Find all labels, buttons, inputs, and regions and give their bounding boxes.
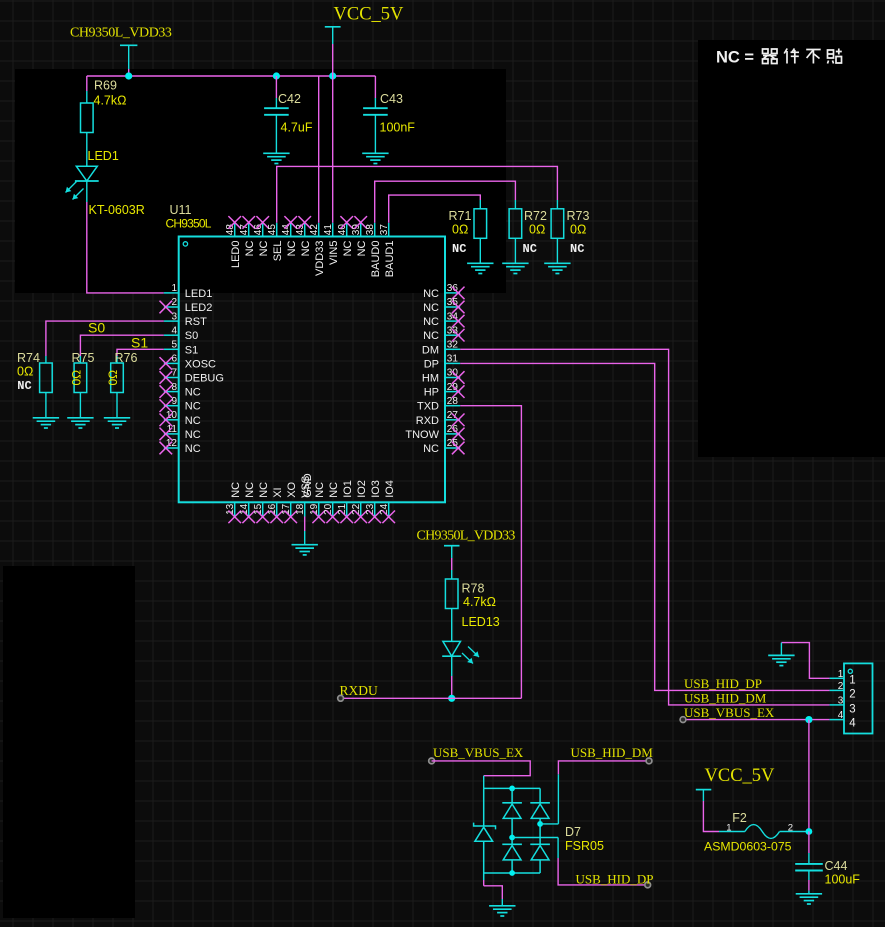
svg-text:NC: NC (523, 242, 537, 256)
resistor R78 (445, 579, 458, 609)
svg-text:NC: NC (185, 429, 201, 441)
wire C44 to ground (808, 871, 810, 881)
D7 junction column C mid (537, 821, 543, 827)
wire C43 to ground (374, 115, 376, 154)
svg-text:4.7uF: 4.7uF (281, 120, 313, 134)
wire S1 to R76 (117, 349, 164, 356)
pin 14 NC (bottom) (248, 502, 250, 516)
svg-text:1: 1 (849, 674, 855, 686)
pin 1 LED1 (left) (164, 292, 179, 294)
svg-text:43: 43 (295, 224, 306, 236)
wire SEL net (277, 166, 558, 222)
svg-text:6: 6 (171, 354, 177, 365)
ground below C44 (796, 894, 822, 904)
svg-text:R74: R74 (17, 351, 40, 365)
svg-text:NC: NC (356, 240, 368, 256)
svg-text:0Ω: 0Ω (570, 222, 586, 236)
svg-text:2: 2 (838, 681, 844, 692)
svg-text:39: 39 (351, 224, 362, 236)
svg-text:HM: HM (422, 373, 439, 385)
svg-text:41: 41 (323, 224, 334, 236)
capacitor C43 (374, 76, 376, 98)
svg-text:R73: R73 (567, 209, 590, 223)
svg-text:LED1: LED1 (185, 288, 213, 300)
svg-text:18: 18 (295, 503, 306, 515)
junction VBUS / C44 branch (805, 716, 812, 723)
svg-text:IO4: IO4 (384, 480, 396, 498)
svg-text:48: 48 (225, 224, 236, 236)
ground below R72 (502, 263, 528, 273)
svg-text:4.7kΩ: 4.7kΩ (94, 94, 127, 108)
svg-text:35: 35 (447, 297, 459, 308)
capacitor C44 (808, 832, 810, 854)
svg-text:33: 33 (447, 325, 459, 336)
wire D7 to USB_HID_DP (512, 837, 558, 839)
wire R76 to ground (116, 393, 118, 418)
svg-text:USB_HID_DP: USB_HID_DP (576, 872, 654, 887)
svg-text:3: 3 (171, 311, 177, 322)
svg-text:CH9350L_VDD33: CH9350L_VDD33 (70, 26, 172, 41)
pin 30 HM (right) (445, 377, 460, 379)
svg-text:LED13: LED13 (462, 615, 500, 629)
ground below C43 (362, 153, 388, 163)
svg-text:XO: XO (286, 481, 298, 497)
svg-text:USB_HID_DP: USB_HID_DP (684, 676, 762, 691)
svg-text:34: 34 (447, 311, 459, 322)
pin 39 NC (top) (360, 223, 362, 237)
pin 4 S0 (left) (164, 334, 179, 336)
op-amp U11 CH9350L body (179, 237, 445, 503)
pin 3 RST (left) (164, 320, 179, 322)
svg-text:32: 32 (447, 340, 459, 351)
svg-text:VIN5: VIN5 (328, 241, 340, 265)
svg-text:R78: R78 (462, 581, 485, 595)
pin 15 NC (bottom) (262, 502, 264, 516)
wire DM to connector pin 3 (460, 349, 829, 705)
pin 33 NC (right) (445, 334, 460, 336)
wire VCC_5V down to rail (332, 44, 334, 76)
svg-text:XI: XI (272, 487, 284, 497)
svg-text:2: 2 (171, 297, 177, 308)
pin 22 IO2 (bottom) (360, 502, 362, 516)
svg-text:1: 1 (838, 669, 844, 680)
ground below R73 (544, 263, 570, 273)
svg-text:DM: DM (422, 344, 439, 356)
svg-text:R76: R76 (115, 351, 138, 365)
pin 1 marker circle (183, 242, 187, 246)
svg-text:NC: NC (286, 240, 298, 256)
wire USB_VBUS_EX to D7 (432, 761, 531, 776)
svg-text:NC: NC (423, 288, 439, 300)
dark redraw patches (15, 69, 506, 293)
pin 8 NC (left) (164, 391, 179, 393)
wire R69 to LED1 (86, 133, 88, 167)
svg-text:F2: F2 (732, 811, 747, 825)
wire TXD down (460, 406, 521, 699)
no-ERC marker USB_VBUS_EX (D7) (429, 758, 435, 764)
D7 junction top (509, 786, 515, 792)
pin 10 NC (left) (164, 419, 179, 421)
svg-text:GND: GND (302, 473, 314, 498)
junction LED13 / RXDU wire (448, 695, 455, 702)
svg-text:25: 25 (447, 438, 459, 449)
svg-text:VDD33: VDD33 (314, 241, 326, 276)
svg-text:3: 3 (838, 695, 844, 706)
junction at rail / VCC_5V (329, 72, 336, 79)
svg-text:DP: DP (424, 358, 439, 370)
svg-text:DEBUG: DEBUG (185, 373, 224, 385)
junction F2 / C44 (806, 828, 813, 835)
svg-text:47: 47 (239, 224, 250, 236)
svg-text:NC: NC (342, 240, 354, 256)
svg-text:TNOW: TNOW (405, 429, 439, 441)
wire USB_VBUS_EX to connector pin 4 (683, 719, 830, 721)
wire D7 to USB_HID_DM (540, 823, 558, 825)
svg-text:NC: NC (185, 387, 201, 399)
wire VDD33 pin to rail (318, 76, 320, 223)
svg-text:NC: NC (230, 482, 242, 498)
svg-text:37: 37 (379, 224, 390, 236)
svg-text:NC: NC (423, 330, 439, 342)
svg-text:USB_VBUS_EX: USB_VBUS_EX (684, 705, 775, 720)
svg-text:27: 27 (447, 410, 459, 421)
no-ERC marker USB_HID_DP (D7) (645, 882, 651, 888)
ground at connector pin 1 (768, 655, 794, 665)
svg-text:1: 1 (171, 283, 177, 294)
hanzi qi (763, 49, 778, 64)
pin 5 S1 (left) (164, 348, 179, 350)
wire LED1 to pin 1 (87, 202, 164, 293)
pin 25 NC (right) (445, 447, 460, 449)
D7 top rail (484, 787, 540, 789)
svg-text:NC: NC (244, 482, 256, 498)
D7 column C diode pair (539, 788, 541, 802)
svg-text:28: 28 (447, 396, 459, 407)
pin 2 LED2 (left) (164, 306, 179, 308)
pin 43 NC (top) (304, 223, 306, 237)
svg-text:100uF: 100uF (825, 873, 861, 887)
pin 41 VIN5 (top) (332, 223, 334, 237)
svg-text:NC: NC (185, 415, 201, 427)
no-ERC marker RXDU (338, 695, 344, 701)
svg-text:LED2: LED2 (185, 302, 213, 314)
pin 18 VSS (bottom) (304, 502, 306, 516)
svg-text:U11: U11 (170, 203, 192, 217)
wire VIN5 pin to rail (332, 76, 334, 223)
svg-text:42: 42 (309, 224, 320, 236)
hanzi bu (806, 50, 821, 64)
svg-text:IO3: IO3 (370, 480, 382, 498)
svg-text:0Ω: 0Ω (452, 222, 468, 236)
pin 46 NC (top) (262, 223, 264, 237)
pin 37 BAUD1 (top) (388, 223, 390, 237)
pin 16 XI (bottom) (276, 502, 278, 516)
svg-text:5: 5 (171, 340, 177, 351)
svg-text:XOSC: XOSC (185, 358, 216, 370)
svg-text:D7: D7 (565, 825, 581, 839)
pin 7 DEBUG (left) (164, 377, 179, 379)
svg-text:VCC_5V: VCC_5V (705, 766, 776, 786)
wire BAUD0 to R72 (375, 181, 516, 223)
svg-text:44: 44 (281, 224, 292, 236)
svg-text:R69: R69 (94, 79, 117, 93)
svg-text:KT-0603R: KT-0603R (89, 203, 145, 217)
pin 29 HP (right) (445, 391, 460, 393)
svg-text:FSR05: FSR05 (565, 839, 604, 853)
wire R78 to LED13 (451, 609, 453, 642)
svg-text:NC: NC (423, 443, 439, 455)
svg-text:30: 30 (447, 368, 459, 379)
wire R71 to ground (479, 238, 481, 263)
svg-text:BAUD0: BAUD0 (370, 241, 382, 278)
pin 42 VDD33 (top) (318, 223, 320, 237)
svg-text:ASMD0603-075: ASMD0603-075 (704, 840, 792, 854)
pin 32 DM (right) (445, 348, 460, 350)
pin 24 IO4 (bottom) (388, 502, 390, 516)
svg-text:12: 12 (166, 438, 178, 449)
pin 44 NC (top) (290, 223, 292, 237)
svg-text:S1: S1 (131, 335, 148, 351)
ground below D7 (489, 906, 515, 916)
svg-text:R75: R75 (72, 351, 95, 365)
svg-text:0Ω: 0Ω (17, 365, 33, 379)
wire VDD33 rail (87, 75, 376, 77)
resistor R76 (111, 363, 124, 393)
svg-text:S0: S0 (185, 330, 198, 342)
wire rail corner down to R69 (86, 76, 88, 91)
resistor R69 (81, 103, 94, 133)
ground below R71 (467, 263, 493, 273)
resistor R72 (509, 209, 522, 239)
svg-text:NC: NC (570, 242, 584, 256)
svg-text:IO2: IO2 (356, 480, 368, 498)
connector pin 4 (830, 719, 844, 721)
pin 6 XOSC (left) (164, 362, 179, 364)
resistor R74 (40, 363, 53, 393)
capacitor C42 (275, 76, 277, 98)
svg-text:7: 7 (171, 368, 177, 379)
svg-text:1: 1 (726, 823, 731, 834)
svg-text:45: 45 (267, 224, 278, 236)
wire S0 to R75 (80, 335, 163, 356)
svg-text:NC: NC (423, 302, 439, 314)
connector J? 4-pin (844, 663, 873, 733)
hanzi jian (784, 49, 799, 64)
svg-text:BAUD1: BAUD1 (384, 241, 396, 278)
pin 48 LED0 (top) (234, 223, 236, 237)
svg-text:10: 10 (166, 410, 178, 421)
svg-text:100nF: 100nF (380, 120, 416, 134)
svg-text:0Ω: 0Ω (529, 222, 545, 236)
svg-text:0Ω: 0Ω (69, 370, 83, 386)
wire R73 to ground (556, 238, 558, 263)
svg-text:NC: NC (328, 482, 340, 498)
svg-text:S1: S1 (185, 344, 198, 356)
wire from CH9350L_VDD33 to rail (128, 69, 130, 76)
ground below R76 (104, 418, 130, 428)
wire VBUS down to fuse junction (808, 720, 810, 832)
wire RST to R74 (46, 321, 164, 356)
wire R75 to ground (79, 393, 81, 418)
wire C42 to ground (275, 115, 277, 154)
svg-text:26: 26 (447, 424, 459, 435)
pin 20 NC (bottom) (332, 502, 334, 516)
svg-text:USB_HID_DM: USB_HID_DM (684, 690, 767, 705)
svg-text:S0: S0 (88, 319, 105, 335)
pin 45 SEL (top) (276, 223, 278, 237)
svg-text:R71: R71 (449, 209, 472, 223)
D7 bottom rail (484, 872, 540, 874)
resistor R71 (474, 209, 487, 239)
svg-text:RXDU: RXDU (340, 683, 379, 698)
pin 31 DP (right) (445, 362, 460, 364)
svg-text:NC: NC (314, 482, 326, 498)
svg-text:2: 2 (849, 689, 855, 701)
svg-text:USB_HID_DM: USB_HID_DM (571, 745, 654, 760)
pin 34 NC (right) (445, 320, 460, 322)
svg-text:NC: NC (452, 242, 466, 256)
connector pin 3 (830, 704, 844, 706)
svg-text:NC: NC (185, 443, 201, 455)
wire VSS pin to ground (304, 517, 306, 532)
wire LED1 cathode down (86, 181, 88, 202)
pin 26 TNOW (right) (445, 433, 460, 435)
svg-text:CH9350L: CH9350L (166, 217, 212, 231)
pin 47 NC (top) (248, 223, 250, 237)
svg-text:11: 11 (167, 424, 178, 435)
svg-text:40: 40 (337, 224, 348, 236)
pin 23 IO3 (bottom) (374, 502, 376, 516)
svg-text:LED0: LED0 (230, 241, 242, 269)
ground below C42 (263, 153, 289, 163)
svg-text:4.7kΩ: 4.7kΩ (463, 595, 496, 609)
wire R72 to ground (514, 238, 516, 263)
svg-text:0Ω: 0Ω (106, 370, 120, 386)
svg-text:4: 4 (838, 710, 844, 721)
pin 12 NC (left) (164, 447, 179, 449)
svg-text:IO1: IO1 (342, 480, 354, 498)
pin 9 NC (left) (164, 405, 179, 407)
D7 column B diode pair (511, 788, 513, 802)
no-ERC marker USB_VBUS_EX (680, 717, 686, 723)
svg-text:R72: R72 (524, 209, 547, 223)
ground below R75 (67, 418, 93, 428)
pin 21 IO1 (bottom) (346, 502, 348, 516)
no-ERC marker USB_HID_DM (D7) (646, 758, 652, 764)
pin 17 XO (bottom) (290, 502, 292, 516)
svg-text:USB_VBUS_EX: USB_VBUS_EX (433, 745, 524, 760)
svg-text:TXD: TXD (417, 401, 439, 413)
svg-text:NC: NC (300, 240, 312, 256)
svg-text:C42: C42 (278, 92, 301, 106)
svg-text:46: 46 (253, 224, 264, 236)
D7 junction bottom (509, 870, 515, 876)
svg-text:VCC_5V: VCC_5V (334, 5, 405, 25)
junction at rail / CH9350L_VDD33 (125, 72, 132, 79)
svg-text:CH9350L_VDD33: CH9350L_VDD33 (417, 529, 516, 544)
svg-text:C44: C44 (825, 859, 848, 873)
hanzi tie (828, 49, 842, 64)
svg-text:36: 36 (447, 283, 459, 294)
wire D7 to ground (483, 873, 485, 880)
svg-text:HP: HP (424, 387, 439, 399)
svg-text:SEL: SEL (272, 241, 284, 262)
svg-text:4: 4 (171, 325, 177, 336)
svg-text:NC: NC (244, 240, 256, 256)
svg-text:31: 31 (447, 354, 459, 365)
D7 left branch zener (483, 788, 485, 826)
wire LED13 to RXDU node (451, 656, 453, 676)
pin 19 NC (bottom) (318, 502, 320, 516)
svg-text:8: 8 (171, 382, 177, 393)
wire VCC_5V to fuse F2 (703, 801, 719, 832)
pin 35 NC (right) (445, 306, 460, 308)
wire RXDU net (341, 697, 522, 699)
pin 38 BAUD0 (top) (374, 223, 376, 237)
svg-text:4: 4 (849, 717, 856, 729)
svg-text:2: 2 (788, 823, 793, 834)
pin 27 RXD (right) (445, 419, 460, 421)
fuse F2 ASMD0603-075 (719, 831, 745, 833)
connector pin 1 (830, 677, 844, 679)
svg-text:C43: C43 (380, 92, 403, 106)
svg-text:NC: NC (423, 316, 439, 328)
svg-text:RXD: RXD (416, 415, 439, 427)
wire VDD33 to R78 (451, 558, 453, 570)
svg-text:38: 38 (365, 224, 376, 236)
pin 13 NC (bottom) (234, 502, 236, 516)
ground below U11 (292, 545, 318, 555)
svg-text:NC: NC (185, 401, 201, 413)
svg-text:NC: NC (258, 240, 270, 256)
svg-text:3: 3 (849, 703, 855, 715)
resistor R73 (551, 209, 564, 239)
svg-text:29: 29 (447, 382, 459, 393)
connector pin 2 (830, 689, 844, 691)
wire R74 to ground (45, 393, 47, 418)
wire DP to connector pin 2 (460, 363, 829, 690)
svg-text:NC: NC (17, 379, 31, 393)
pin 40 NC (top) (346, 223, 348, 237)
resistor R75 (74, 363, 87, 393)
svg-text:RST: RST (185, 316, 207, 328)
pin 28 TXD (right) (445, 405, 460, 407)
svg-text:NC =: NC = (716, 49, 754, 67)
ground below R74 (33, 418, 59, 428)
wire BAUD1 to R71 (389, 195, 481, 223)
svg-text:9: 9 (171, 396, 177, 407)
wire connector pin 1 to ground (781, 643, 829, 679)
svg-text:NC: NC (258, 482, 270, 498)
svg-text:LED1: LED1 (88, 149, 119, 163)
pin 11 NC (left) (164, 433, 179, 435)
D7 junction column B mid (509, 835, 515, 841)
pin 36 NC (right) (445, 292, 460, 294)
junction at rail / C42 (273, 72, 280, 79)
